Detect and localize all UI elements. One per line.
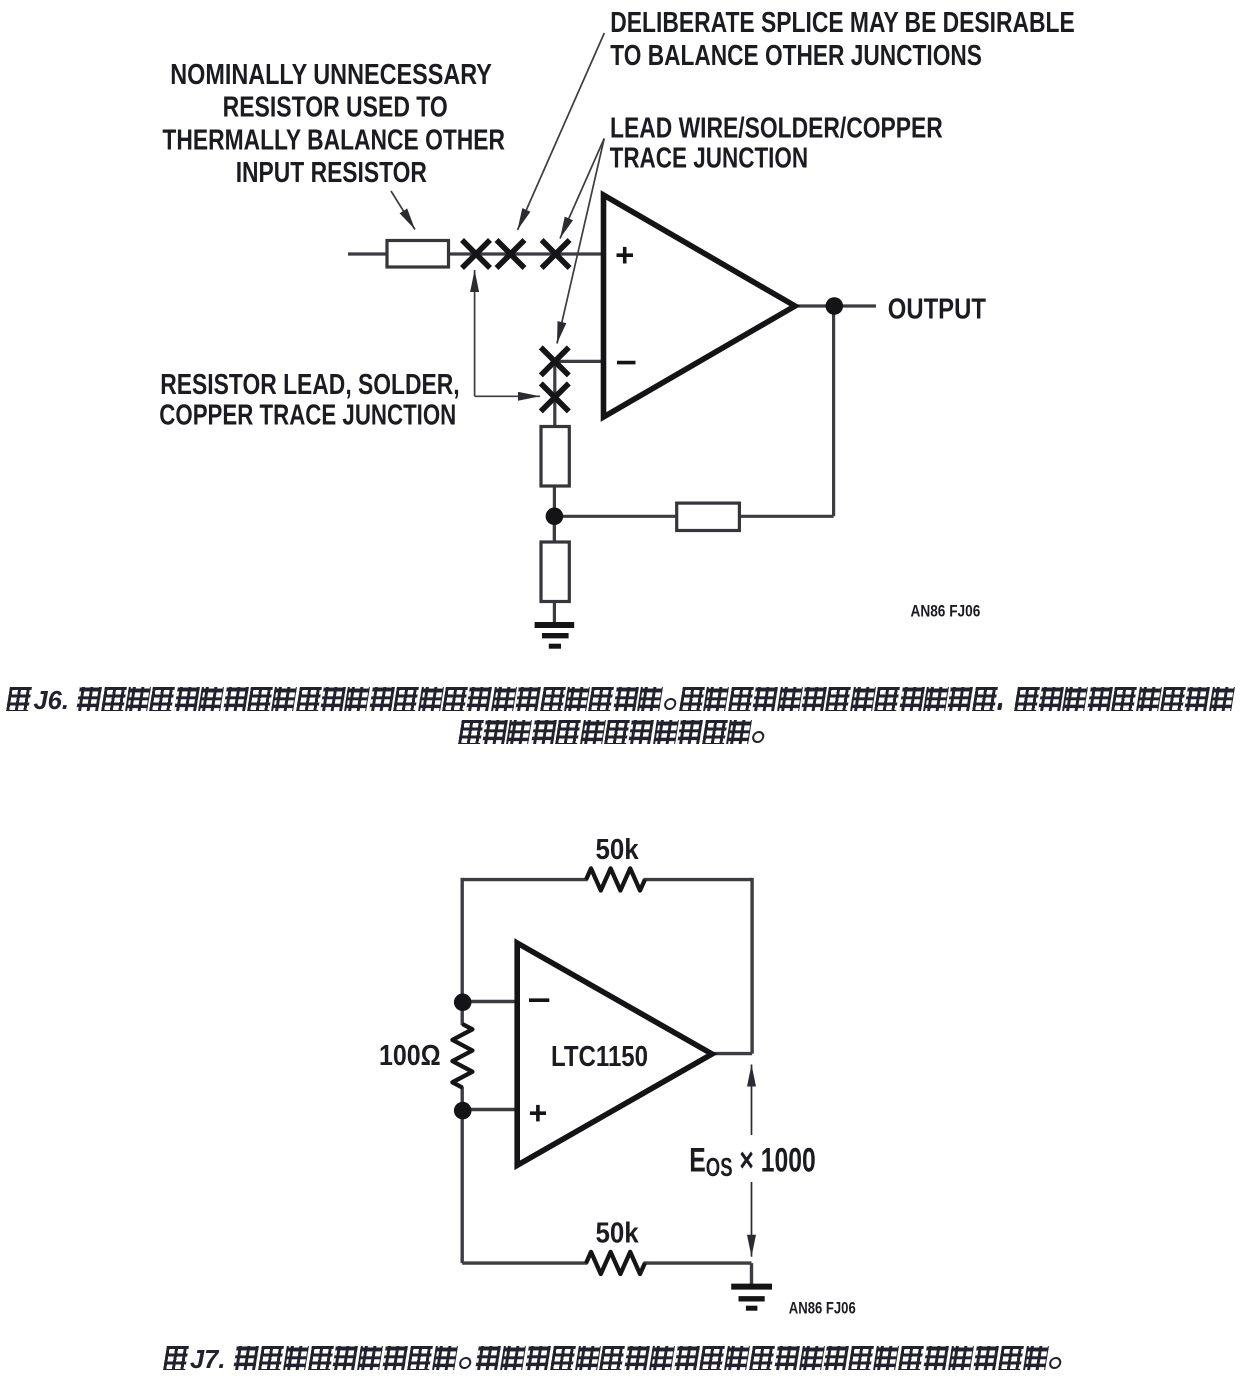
node A junction dot (546, 508, 564, 526)
svg-text:NOMINALLY UNNECESSARY: NOMINALLY UNNECESSARY (170, 58, 492, 91)
label: deliberate splice (2 lines) (610, 8, 1074, 72)
resistor 50k (bottom) zigzag (586, 1252, 645, 1274)
wire node A to feedback resistor R4 (554, 515, 678, 518)
junction X2 (splice on + input wire) (497, 240, 525, 268)
svg-text:OUTPUT: OUTPUT (888, 292, 986, 325)
wire - input (463, 1000, 518, 1003)
wire + input (463, 1108, 518, 1111)
label: 50k (top) (596, 833, 640, 865)
label: OUTPUT (888, 292, 986, 325)
wire resistor R2 to node A (553, 484, 556, 544)
wire vertical through X junctions to resistor R2 (553, 361, 556, 428)
ground (figure J7) (731, 1287, 772, 1309)
svg-text:RESISTOR USED TO: RESISTOR USED TO (223, 92, 448, 123)
measurement double arrow EOS (751, 1065, 753, 1257)
label: 50k (bottom) (596, 1216, 640, 1248)
wire top feedback run (right) (644, 878, 753, 881)
wire inverting input horizontal (555, 360, 603, 363)
resistor R1 (input, horizontal) (387, 241, 449, 268)
wire bottom run (left) (462, 1261, 587, 1264)
junction X4 (lead wire/solder/copper junction, - input) (541, 347, 569, 375)
op-amp U1 triangle (604, 195, 796, 417)
callout arrow to junction X3 (560, 139, 604, 239)
svg-text:RESISTOR LEAD, SOLDER,: RESISTOR LEAD, SOLDER, (160, 370, 459, 401)
wire left vertical rail (461, 878, 464, 1025)
junction X5 (resistor lead/solder/copper junction) (541, 383, 569, 411)
svg-text:TO BALANCE OTHER JUNCTIONS: TO BALANCE OTHER JUNCTIONS (610, 40, 982, 71)
label: AN86 FJ06 (figure J6) (911, 602, 981, 621)
op-amp U1 - input label (617, 361, 636, 365)
resistor R4 (feedback, horizontal) (677, 503, 740, 530)
caption figure J7 (0, 1346, 1235, 1372)
svg-text:LEAD WIRE/SOLDER/COPPER: LEAD WIRE/SOLDER/COPPER (610, 113, 943, 144)
svg-text:EOS × 1000: EOS × 1000 (689, 1142, 815, 1182)
junction X3 (lead wire/solder/copper junction, + input) (542, 240, 570, 268)
wire feedback resistor R4 to output branch (738, 515, 834, 518)
wire right vertical (output to top feedback) (750, 878, 753, 1054)
svg-text:AN86 FJ06: AN86 FJ06 (911, 602, 981, 621)
callout arrow to junction X4 (557, 139, 604, 344)
ground (figure J6) (535, 625, 575, 646)
svg-text:DELIBERATE SPLICE MAY BE DESIR: DELIBERATE SPLICE MAY BE DESIRABLE (610, 8, 1074, 39)
label: EOS x 1000 (689, 1142, 815, 1182)
svg-text:THERMALLY BALANCE OTHER: THERMALLY BALANCE OTHER (162, 125, 505, 156)
wire ground stub (750, 1263, 753, 1284)
wire top feedback run (left) (461, 878, 587, 881)
node output junction dot (826, 297, 844, 315)
svg-text:COPPER TRACE JUNCTION: COPPER TRACE JUNCTION (159, 400, 456, 431)
svg-text:50k: 50k (596, 833, 640, 865)
callout elbow arrows to X1 and X5 (475, 270, 540, 396)
node dot + input (454, 1102, 472, 1120)
op-amp U2 - input label (529, 998, 549, 1002)
label: nominally unnecessary resistor (4 lines) (162, 58, 505, 189)
svg-text:INPUT RESISTOR: INPUT RESISTOR (236, 158, 427, 189)
op-amp U2 + input label (530, 1105, 546, 1122)
wire op-amp output (710, 1052, 752, 1055)
wire op-amp output (795, 304, 876, 307)
wire node A to resistor R3 (553, 516, 556, 560)
label: AN86 FJ06 (figure J7) (789, 1299, 856, 1318)
svg-text:AN86 FJ06: AN86 FJ06 (789, 1299, 856, 1318)
label: resistor lead, solder, copper trace junction (159, 370, 459, 431)
svg-text:100Ω: 100Ω (379, 1039, 441, 1071)
wire bottom run (right) (644, 1261, 752, 1264)
junction X1 (splice on + input wire) (462, 240, 490, 268)
caption figure J6 line 2 (0, 720, 1234, 746)
resistor R3 (vertical lower) (541, 542, 569, 602)
node dot - input (454, 994, 472, 1012)
label: LTC1150 (551, 1040, 648, 1072)
svg-text:TRACE JUNCTION: TRACE JUNCTION (610, 143, 809, 174)
callout arrow to junction X2 (518, 33, 605, 230)
callout arrow to resistor R1 (391, 191, 415, 230)
label: 100 ohm (379, 1039, 441, 1071)
label: lead wire/solder/copper trace junction (610, 113, 943, 174)
op-amp U2 triangle (517, 943, 712, 1165)
wire output vertical branch (832, 306, 835, 516)
wire main input horizontal (348, 252, 603, 255)
resistor R2 (vertical upper) (541, 427, 569, 487)
svg-text:LTC1150: LTC1150 (551, 1040, 648, 1072)
op-amp U1 + input label (617, 247, 634, 264)
resistor 50k (top feedback) zigzag (586, 868, 645, 890)
svg-text:50k: 50k (596, 1216, 640, 1248)
wire resistor R3 to ground (553, 600, 556, 624)
caption figure J6 line 1 (0, 687, 1241, 713)
resistor 100 ohm zigzag (vertical) (452, 1024, 472, 1088)
